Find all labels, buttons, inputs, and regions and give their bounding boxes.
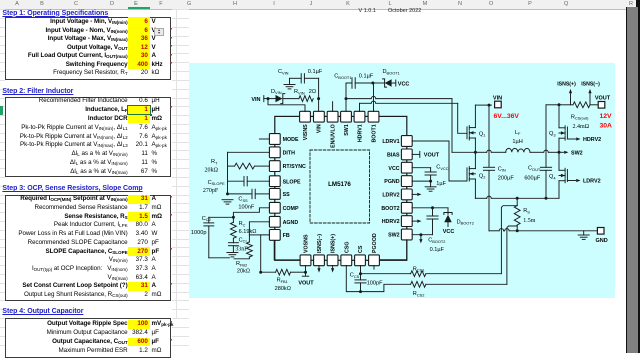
svg-text:CSLOPE: CSLOPE: [208, 180, 225, 186]
node ISNS(+) net arrow: [332, 266, 334, 269]
svg-text:RC: RC: [239, 221, 246, 227]
svg-text:1.5m: 1.5m: [523, 218, 536, 224]
pin RT/SYNC (left): [269, 161, 280, 172]
ground (power): [583, 231, 585, 235]
node SW2 net arrow down: [420, 235, 422, 239]
svg-text:VISNS: VISNS: [303, 124, 309, 140]
capacitor CC2 1000p: [209, 216, 234, 218]
svg-text:SLOPE: SLOPE: [283, 179, 301, 185]
svg-text:PGOOD: PGOOD: [372, 233, 378, 253]
node ISNS(-) net arrow: [318, 266, 320, 269]
wire SW2 pin drop to PGOOD row: [380, 240, 407, 260]
svg-text:33nF: 33nF: [235, 247, 248, 253]
wire VOUT rail: [546, 104, 559, 106]
pin CSG (bottom): [341, 255, 352, 266]
wire CSG run: [346, 266, 410, 292]
svg-text:VOUT: VOUT: [595, 95, 611, 101]
svg-text:RFB2: RFB2: [236, 261, 247, 267]
svg-text:HDRV2: HDRV2: [583, 137, 601, 143]
diode DBOOT1: [373, 82, 385, 84]
svg-text:VIN: VIN: [317, 124, 323, 133]
resistor RCS(out): [573, 102, 590, 108]
capacitor CCI 33nF: [232, 238, 234, 242]
svg-text:DITH: DITH: [283, 150, 296, 156]
svg-text:0.1µF: 0.1µF: [308, 69, 323, 75]
svg-text:1000p: 1000p: [191, 230, 207, 236]
svg-text:AGND: AGND: [283, 220, 299, 226]
svg-text:VCC: VCC: [398, 81, 410, 87]
ground (CVIN): [284, 84, 295, 86]
svg-text:280kΩ: 280kΩ: [275, 286, 291, 292]
svg-text:6V...36V: 6V...36V: [494, 113, 520, 120]
svg-text:CBOOT2: CBOOT2: [428, 238, 445, 244]
svg-text:0.1µF: 0.1µF: [359, 73, 374, 79]
svg-text:12V: 12V: [600, 113, 613, 120]
inductor LF 1uH: [506, 148, 530, 152]
svg-text:SS: SS: [283, 192, 291, 198]
svg-text:RCS(out): RCS(out): [571, 114, 589, 120]
capacitor CCS 100pF: [360, 274, 362, 280]
pin PGND (right): [401, 176, 412, 187]
wire PGND to CVCC gnd: [412, 180, 431, 182]
capacitor CSLOPE 270pF: [228, 180, 245, 182]
wire VISNS to VIN node: [268, 99, 305, 112]
pin ISNS(+) (bottom): [327, 255, 338, 266]
svg-text:VCC: VCC: [443, 229, 455, 235]
resistor RC 6.19k: [232, 217, 234, 222]
svg-text:VOUT: VOUT: [424, 153, 440, 159]
transistor Q4: [564, 168, 566, 172]
transistor Q3: [564, 126, 566, 130]
svg-text:DVIN: DVIN: [271, 89, 282, 95]
svg-text:VIN: VIN: [251, 97, 260, 103]
pin MODE (left): [269, 134, 280, 145]
pin COMP (left): [269, 202, 280, 213]
svg-text:LF: LF: [515, 130, 521, 136]
svg-text:VOSNS: VOSNS: [304, 234, 310, 253]
svg-text:CCS: CCS: [350, 273, 360, 279]
wire SW1 long run to power stage: [346, 98, 371, 100]
svg-text:2.4mΩ: 2.4mΩ: [573, 124, 590, 130]
pin PGOOD (bottom): [369, 255, 380, 266]
wire: [283, 98, 299, 100]
resistor RCS1: [411, 271, 426, 277]
svg-text:SW1: SW1: [344, 124, 350, 136]
node GND terminal: [597, 228, 604, 235]
wire VIN rail: [475, 104, 489, 106]
wire GND rail: [489, 230, 499, 232]
node VOUT label at BIAS: [412, 153, 420, 155]
capacitor CBOOT2 0.1uF: [432, 208, 434, 216]
pin SS (left): [269, 189, 280, 200]
svg-text:ISNS(+): ISNS(+): [557, 81, 576, 87]
wire MODE stub: [259, 138, 269, 140]
pin VOSNS (bottom): [300, 255, 311, 266]
svg-text:100pF: 100pF: [367, 281, 383, 287]
node VOUT terminal: [598, 102, 605, 109]
wire CS run: [360, 266, 362, 274]
svg-text:0.1µF: 0.1µF: [430, 247, 445, 253]
wire COMP run: [233, 208, 269, 218]
svg-text:Q1: Q1: [479, 131, 486, 137]
capacitor CIN 200uF: [483, 166, 494, 168]
resistor RFB2 20k: [248, 235, 250, 242]
node LDRV2 net arrow: [412, 193, 417, 195]
wire RCS2 kelvin riser: [507, 226, 517, 284]
wire VIN drop to CIN: [488, 105, 490, 167]
svg-text:30A: 30A: [600, 123, 613, 130]
svg-text:BOOT2: BOOT2: [381, 206, 399, 212]
svg-text:CCI: CCI: [239, 237, 247, 243]
svg-text:CIN: CIN: [498, 166, 506, 172]
pin VCC (right): [401, 162, 412, 173]
svg-text:CSS: CSS: [238, 196, 248, 202]
pin SLOPE (left): [269, 176, 280, 187]
svg-text:VOUT: VOUT: [298, 280, 314, 286]
node ISNS(+) tap: [570, 94, 572, 105]
svg-text:MODE: MODE: [283, 137, 299, 143]
node VIN terminal: [495, 101, 502, 108]
transistor Q1: [468, 126, 470, 130]
wire LDRV1 to Q2 gate: [412, 141, 467, 181]
pin VIN (top): [314, 111, 325, 122]
svg-text:SW2: SW2: [388, 233, 400, 239]
resistor RT 20k: [228, 165, 235, 167]
pin BOOT2 (right): [401, 202, 412, 213]
svg-text:270pF: 270pF: [203, 188, 219, 194]
wire FB to VOSNS: [274, 240, 300, 259]
svg-text:RFB1: RFB1: [277, 278, 288, 284]
capacitor CVIN 0.1uF: [290, 77, 302, 79]
capacitor COUT 600uF: [540, 166, 551, 168]
capacitor CVCC 1uF: [412, 167, 431, 169]
diode DBOOT2: [447, 208, 449, 215]
svg-text:1µH: 1µH: [512, 139, 522, 145]
wire SW2 pin to CBOOT2: [412, 234, 433, 236]
transistor Q2: [468, 167, 470, 171]
svg-text:100nF: 100nF: [238, 205, 254, 211]
svg-text:CC2: CC2: [202, 216, 211, 222]
svg-text:FB: FB: [283, 233, 290, 239]
wire HDRV1 pin stub: [359, 103, 361, 111]
svg-text:GND: GND: [596, 238, 608, 244]
svg-text:Q3: Q3: [549, 131, 556, 137]
svg-text:LDRV1: LDRV1: [382, 139, 399, 145]
wire FB node: [261, 235, 270, 272]
svg-text:RVIN: RVIN: [294, 89, 305, 95]
node HDRV2 net arrow: [412, 220, 417, 222]
pin ISNS(&#8722;) (bottom): [314, 255, 325, 266]
svg-text:ISNS(+): ISNS(+): [331, 234, 337, 253]
ground (CVCC): [430, 181, 432, 187]
svg-text:EN/UVLO: EN/UVLO: [330, 124, 336, 148]
svg-text:PGND: PGND: [384, 179, 399, 185]
pin FB (left): [269, 230, 280, 241]
resistor RCS2: [411, 281, 426, 287]
pin AGND (left): [269, 216, 280, 227]
pin VISNS (top): [300, 111, 311, 122]
pin BIAS (right): [401, 149, 412, 160]
svg-text:HDRV1: HDRV1: [357, 124, 363, 142]
svg-text:ISNS(−): ISNS(−): [317, 234, 323, 253]
svg-text:COUT: COUT: [528, 165, 541, 171]
pin SW2 (right): [401, 229, 412, 240]
pin EN/UVLO (top): [327, 111, 338, 122]
wire PGND rail: [475, 197, 486, 199]
pin CS (bottom): [355, 255, 366, 266]
pin BOOT1 (top): [368, 111, 379, 122]
ground (left bus): [222, 199, 233, 201]
svg-text:RT: RT: [211, 159, 218, 165]
capacitor CSS 100nF: [228, 193, 253, 195]
svg-text:VCC: VCC: [388, 166, 399, 172]
svg-text:DBOOT1: DBOOT1: [383, 69, 400, 75]
svg-text:RS: RS: [523, 208, 530, 214]
svg-text:LDRV2: LDRV2: [382, 193, 399, 199]
svg-text:LDRV2: LDRV2: [583, 179, 601, 185]
diode DVIN: [276, 95, 283, 102]
wire SW1 pin stub: [345, 99, 347, 112]
wire COUT drop: [545, 105, 547, 168]
svg-text:CVCC: CVCC: [436, 165, 448, 171]
wire PGOOD stub: [373, 266, 375, 270]
wire BOOT1 pin stub: [373, 83, 375, 112]
node HDRV2 net label at Q3 gate: [567, 138, 575, 140]
svg-text:20kΩ: 20kΩ: [237, 269, 250, 275]
pin HDRV1 (top): [354, 111, 365, 122]
wire SW1 rail with inductor: [452, 151, 475, 153]
svg-text:BOOT1: BOOT1: [371, 124, 377, 142]
svg-text:SW2: SW2: [571, 151, 583, 157]
svg-text:BIAS: BIAS: [387, 153, 400, 159]
svg-text:VIN: VIN: [493, 95, 502, 101]
svg-text:Q4: Q4: [549, 174, 556, 180]
wire: [318, 99, 320, 112]
resistor RS 1.5m sense: [516, 198, 518, 205]
pin LDRV2 (right): [401, 189, 412, 200]
wire AGND drop: [249, 222, 269, 235]
wire EN/UVLO stub: [332, 102, 334, 112]
svg-text:CVIN: CVIN: [278, 69, 289, 75]
ground (comp): [227, 252, 238, 254]
svg-text:CSG: CSG: [344, 242, 350, 253]
svg-text:20kΩ: 20kΩ: [205, 167, 219, 173]
resistor RVIN 2ohm: [299, 96, 313, 102]
svg-text:6.19kΩ: 6.19kΩ: [239, 229, 257, 235]
resistor RFB1 280k: [261, 271, 276, 273]
svg-text:CBOOT1: CBOOT1: [334, 73, 351, 79]
wire RCS1 kelvin riser: [501, 206, 517, 274]
svg-text:600µF: 600µF: [524, 176, 541, 182]
svg-text:COMP: COMP: [283, 206, 299, 212]
wire DITH to gnd bus: [228, 151, 270, 153]
svg-text:DBOOT2: DBOOT2: [457, 219, 474, 225]
op-amp U1 LM5176 controller body: [275, 116, 407, 260]
capacitor CBOOT1 0.1uF: [346, 83, 352, 99]
pin HDRV2 (right): [401, 216, 412, 227]
svg-text:2Ω: 2Ω: [309, 89, 316, 95]
pin SW1 (top): [341, 111, 352, 122]
svg-text:1µF: 1µF: [436, 181, 446, 187]
wire VOSNS to VOUT node: [305, 266, 307, 273]
svg-text:HDRV2: HDRV2: [382, 219, 400, 225]
svg-text:ISNS(−): ISNS(−): [581, 81, 600, 87]
svg-text:RCS1: RCS1: [413, 266, 425, 272]
wire BOOT2: [412, 207, 448, 209]
pin LDRV1 (right): [401, 136, 412, 147]
pin DITH (left): [269, 147, 280, 158]
svg-text:Q2: Q2: [479, 173, 486, 179]
node SW2 net label: [559, 151, 564, 153]
svg-text:200µF: 200µF: [498, 176, 515, 182]
svg-text:RCS2: RCS2: [413, 291, 425, 297]
svg-text:CS: CS: [358, 245, 364, 253]
wire HDRV1 long run to Q1 gate: [360, 102, 371, 104]
svg-text:LM5176: LM5176: [328, 181, 351, 188]
node LDRV2 net label at Q4 gate: [567, 180, 575, 182]
svg-text:RT/SYNC: RT/SYNC: [283, 164, 306, 170]
node ISNS(-) tap: [589, 94, 591, 105]
